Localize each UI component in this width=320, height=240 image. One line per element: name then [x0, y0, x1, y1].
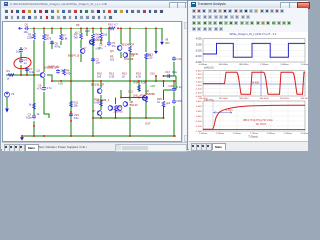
svg-text:340.000u: 340.000u — [300, 98, 308, 100]
highlight ellipse around C1 — [13, 56, 32, 69]
battery V8 arrow symbol — [161, 40, 164, 44]
wire Q1 collector to mid rail — [47, 75, 52, 81]
resistor R20 — [162, 101, 165, 107]
ground arrow below V1 — [6, 108, 9, 112]
resistor R2 — [33, 33, 36, 39]
wire — [60, 41, 62, 45]
node — [100, 27, 102, 29]
svg-text:No TOUT: No TOUT — [256, 123, 267, 126]
wire right edge drop — [175, 76, 177, 90]
wire — [100, 39, 102, 44]
wire V1 to ground — [6, 97, 8, 108]
plot3 measurement arrow — [214, 112, 233, 114]
wire — [80, 28, 82, 33]
wire driver row — [130, 97, 148, 99]
wire extension — [121, 97, 130, 99]
node — [129, 97, 131, 99]
node — [146, 97, 148, 99]
wire — [163, 81, 165, 87]
wire — [20, 47, 22, 49]
svg-text:320.000u: 320.000u — [280, 98, 290, 100]
capacitor C15 — [69, 112, 73, 117]
wire — [20, 65, 22, 75]
svg-text:-1.000: -1.000 — [195, 89, 202, 91]
resistor R6 — [92, 34, 95, 40]
node — [70, 27, 72, 29]
node — [163, 80, 165, 82]
svg-text:3.000ms: 3.000ms — [301, 133, 308, 135]
node — [129, 80, 131, 82]
wire — [92, 118, 94, 136]
capacitor C5 — [42, 86, 46, 91]
resistor R13 — [145, 53, 148, 59]
svg-text:400.000u: 400.000u — [219, 64, 229, 66]
plot2 red trace — [203, 72, 305, 94]
wire — [33, 75, 35, 115]
svg-text:-3.000: -3.000 — [195, 92, 202, 94]
svg-text:0.000: 0.000 — [196, 50, 202, 52]
svg-text:-2.000: -2.000 — [195, 56, 202, 58]
node — [138, 97, 140, 99]
wire — [80, 54, 82, 62]
wire — [129, 107, 131, 136]
node — [70, 80, 72, 82]
transistor Q1 — [40, 72, 45, 78]
wire — [145, 101, 147, 118]
svg-text:2.000ms: 2.000ms — [301, 64, 308, 66]
wire right column upper — [173, 62, 175, 76]
node ground junction — [21, 135, 23, 137]
resistor R17 — [114, 105, 117, 111]
wire — [92, 28, 94, 33]
svg-text:4.000: 4.000 — [196, 39, 202, 41]
transistor Q8 — [123, 101, 128, 107]
node — [60, 27, 62, 29]
wire right upper stub — [164, 75, 177, 77]
wire bottom rail — [21, 135, 176, 137]
node — [92, 135, 94, 137]
transistor Q4 — [89, 39, 94, 45]
svg-text:9.000: 9.000 — [196, 70, 202, 72]
wire — [100, 81, 102, 88]
transistor Q6 — [142, 95, 147, 101]
node — [129, 135, 131, 137]
svg-text:2.400ms: 2.400ms — [199, 133, 208, 135]
resistor R16 — [100, 100, 103, 106]
wire — [163, 106, 165, 118]
capacitor C9 — [107, 41, 111, 46]
node — [80, 27, 82, 29]
capacitor C8 — [50, 40, 54, 45]
svg-text:0.000ms: 0.000ms — [199, 64, 208, 66]
wire — [100, 28, 102, 32]
wire — [43, 28, 45, 34]
node — [51, 27, 53, 29]
wire Q1 emitter branch — [44, 92, 49, 118]
wire — [20, 53, 22, 59]
svg-text:6.000: 6.000 — [196, 106, 202, 108]
wire right stub — [164, 89, 177, 91]
wire input row — [6, 74, 40, 76]
node — [129, 117, 131, 119]
node — [100, 117, 102, 119]
wire — [173, 81, 175, 88]
wire — [92, 40, 94, 118]
transistor Q3 — [117, 45, 122, 51]
node — [120, 97, 122, 99]
plot3 frame — [203, 101, 305, 131]
wire — [115, 110, 117, 118]
wire — [129, 81, 131, 101]
plot3 grid — [203, 101, 305, 131]
capacitor C2b — [91, 57, 95, 62]
plot3 blue flat trace v(IN) low — [203, 129, 305, 131]
transistor Q7 — [97, 110, 102, 116]
battery V9 arrow symbol — [155, 49, 158, 53]
resistor R5b — [100, 33, 103, 39]
plot1 frame — [203, 39, 305, 63]
svg-text:3.000: 3.000 — [196, 111, 202, 113]
wire — [173, 106, 175, 136]
node — [26, 74, 28, 76]
svg-text:v(IN) (V): v(IN) (V) — [204, 67, 214, 70]
node — [100, 80, 102, 82]
node — [33, 27, 35, 29]
plot2 horizontal cursor line — [203, 83, 305, 85]
plot1 blue square wave trace — [203, 43, 305, 57]
resistor R1 — [8, 74, 14, 77]
node — [43, 27, 45, 29]
transistor Q9 — [97, 88, 102, 94]
wire — [173, 92, 175, 100]
node — [86, 27, 88, 29]
wire — [120, 52, 122, 58]
wire — [155, 76, 157, 81]
input terminal arrow — [19, 27, 23, 29]
resistor R4 — [63, 69, 66, 75]
svg-text:5.000: 5.000 — [196, 78, 202, 80]
svg-text:885.177m(477u),707.214u: 885.177m(477u),707.214u — [243, 119, 273, 122]
wire — [60, 28, 62, 34]
wire — [138, 81, 140, 92]
svg-text:1.71m: 1.71m — [226, 110, 232, 112]
wire — [51, 41, 53, 49]
node — [92, 117, 94, 119]
wire — [129, 28, 131, 45]
wire — [155, 28, 157, 49]
node — [70, 135, 72, 137]
node — [163, 117, 165, 119]
wire mid rail — [52, 80, 176, 82]
capacitor C6 — [24, 26, 29, 30]
svg-text:800.000u: 800.000u — [239, 64, 249, 66]
svg-text:2.900ms: 2.900ms — [284, 133, 293, 135]
capacitor C14sym — [172, 56, 176, 61]
capacitor C2 — [56, 69, 60, 74]
transistor Q5 — [123, 52, 128, 58]
node — [155, 75, 157, 77]
node — [173, 135, 175, 137]
wire — [100, 116, 102, 118]
node — [60, 80, 62, 82]
wire lower rail — [93, 117, 164, 119]
capacitor C13 — [166, 74, 171, 78]
wire — [80, 40, 82, 49]
capacitor C4 — [19, 48, 23, 53]
wire — [100, 95, 102, 110]
node — [20, 74, 22, 76]
capacitor C10 — [172, 87, 176, 92]
node — [129, 27, 131, 29]
svg-text:0.000: 0.000 — [196, 116, 202, 118]
resistor R11 — [70, 101, 73, 107]
svg-text:280.000u: 280.000u — [239, 98, 249, 100]
svg-text:-3.000: -3.000 — [195, 121, 202, 123]
wire — [86, 28, 88, 36]
node — [145, 117, 147, 119]
svg-text:T (Secs): T (Secs) — [248, 135, 258, 138]
wire — [33, 28, 35, 33]
svg-text:260.000u: 260.000u — [219, 98, 229, 100]
resistor R21 — [33, 103, 36, 109]
wire top rail right segment to V8 — [118, 28, 162, 40]
node — [70, 111, 72, 113]
svg-text:1.000: 1.000 — [196, 85, 202, 87]
resistor R12c — [129, 46, 132, 52]
node — [115, 117, 117, 119]
resistor R6 — [92, 40, 95, 46]
wire — [26, 67, 28, 75]
wire — [120, 90, 122, 98]
svg-text:2.500ms: 2.500ms — [216, 133, 225, 135]
wire — [33, 121, 35, 136]
node — [138, 80, 140, 82]
svg-text:1.600ms: 1.600ms — [280, 64, 289, 66]
node — [173, 80, 175, 82]
node — [92, 80, 94, 82]
plot1 grid — [203, 39, 305, 63]
wire — [115, 98, 117, 105]
node — [145, 80, 147, 82]
ground symbol — [21, 136, 24, 140]
resistor R8 — [43, 34, 46, 40]
svg-text:2.600ms: 2.600ms — [233, 133, 242, 135]
capacitor C3 — [32, 114, 36, 119]
svg-text:9.000: 9.000 — [196, 101, 202, 103]
capacitor C1 (highlighted) — [19, 58, 23, 63]
node — [120, 27, 122, 29]
transistor Q11 — [117, 105, 122, 111]
svg-text:2.000: 2.000 — [196, 44, 202, 46]
wire — [145, 58, 147, 95]
node — [155, 27, 157, 29]
plot3 vertical cursor dashed — [212, 101, 214, 130]
plot3 red exponential trace — [203, 105, 305, 129]
wire — [33, 40, 35, 75]
svg-text:24.408: 24.408 — [252, 81, 260, 84]
svg-text:1.200ms: 1.200ms — [260, 64, 269, 66]
plot2 grid — [203, 71, 305, 97]
transistor Q2 — [80, 48, 85, 54]
node — [155, 80, 157, 82]
resistor R14 — [138, 85, 141, 91]
node — [51, 80, 53, 82]
transistor Q10 — [108, 105, 113, 111]
plot2 frame — [203, 71, 305, 97]
node — [33, 125, 35, 127]
resistor R7 — [60, 34, 63, 40]
wire — [129, 51, 131, 81]
wire top rail left segment — [30, 27, 108, 29]
wire — [51, 28, 53, 34]
node — [145, 27, 147, 29]
node — [43, 135, 45, 137]
wire — [163, 90, 165, 100]
plot2 vertical cursor line — [260, 71, 262, 97]
capacitor C12 — [172, 99, 176, 104]
wire — [108, 28, 110, 42]
svg-text:7.000: 7.000 — [196, 74, 202, 76]
capacitor C7 — [25, 67, 29, 72]
svg-text:White_Dragon_W_(-)(CR-V) to 8: White_Dragon_W_(-)(CR-V) to 8 - 2.4 — [230, 32, 277, 36]
svg-text:-5.000: -5.000 — [195, 126, 202, 128]
node — [108, 27, 110, 29]
node — [163, 75, 165, 77]
node — [70, 120, 72, 122]
node — [33, 74, 35, 76]
wire — [120, 28, 122, 44]
resistor R18 — [145, 96, 148, 102]
wire — [43, 78, 45, 86]
wire long rail — [70, 28, 72, 136]
svg-text:3.000: 3.000 — [196, 81, 202, 83]
svg-text:2.800ms: 2.800ms — [267, 133, 276, 135]
node — [33, 135, 35, 137]
wire — [43, 41, 45, 72]
resistor R3 — [80, 33, 83, 39]
svg-text:300.000u: 300.000u — [260, 98, 270, 100]
wire — [145, 28, 147, 52]
voltage source V1 — [5, 92, 10, 97]
node — [117, 27, 119, 29]
node — [92, 27, 94, 29]
resistor R10 — [109, 27, 115, 30]
